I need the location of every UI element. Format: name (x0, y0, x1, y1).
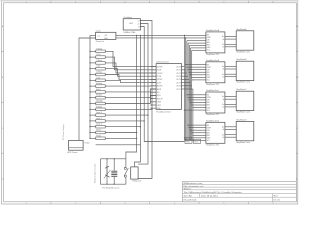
stepper driver U4 (206, 59, 225, 86)
resistor R2 X-Dir (89, 53, 156, 70)
wires U5 to motor connector P6 (225, 97, 236, 107)
svg-text:StepMotor Conn: StepMotor Conn (236, 50, 250, 53)
svg-text:RHElectronics.com: RHElectronics.com (184, 182, 203, 185)
svg-text:OUT3: OUT3 (176, 76, 181, 78)
svg-text:StepDriver 12V: StepDriver 12V (206, 143, 220, 146)
svg-text:MS1: MS1 (207, 42, 210, 44)
svg-text:ATX Power: ATX Power (68, 151, 78, 154)
svg-text:Limit Z: Limit Z (96, 123, 103, 126)
svg-text:STEP: STEP (207, 97, 211, 99)
U2 right pin stubs (176, 66, 193, 90)
svg-text:X-Dir: X-Dir (96, 53, 101, 56)
svg-text:OSC: OSC (129, 23, 134, 25)
wire bundle center vertical 3 (144, 38, 184, 142)
svg-text:Z-Step: Z-Step (96, 71, 102, 74)
svg-text:P1: P1 (98, 36, 100, 38)
interface header U2 (156, 61, 181, 114)
U2 left pin stubs (150, 66, 163, 110)
frame reference letters and numbers (2, 2, 299, 205)
resistor R14 Limit Z (89, 123, 141, 128)
relay contact switch S1 (124, 159, 128, 184)
svg-text:16MHz XTAL: 16MHz XTAL (123, 31, 136, 34)
svg-text:Z-Dir: Z-Dir (96, 76, 101, 79)
motor connector P7 (236, 118, 254, 143)
svg-text:StepMotorB: StepMotorB (236, 58, 247, 61)
wires U4 to motor connector P5 (225, 66, 236, 76)
svg-text:StepDriver 12V: StepDriver 12V (206, 83, 220, 86)
input bus vertical (89, 51, 91, 138)
svg-text:YSTEP: YSTEP (157, 73, 163, 75)
net label GND flag (185, 139, 192, 143)
svg-text:Parallel port brd: Parallel port brd (156, 110, 170, 113)
wire U1 pin3 to bus (140, 27, 144, 38)
ATX power connector P2 (68, 140, 84, 154)
svg-text:MS1: MS1 (207, 132, 210, 134)
svg-text:OUT0: OUT0 (176, 66, 181, 68)
svg-text:XSTEP: XSTEP (157, 66, 163, 68)
svg-text:ZSTEP: ZSTEP (157, 79, 163, 81)
svg-text:StepMotorDrvC: StepMotorDrvC (206, 89, 220, 92)
svg-text:File: schematics.sch: File: schematics.sch (184, 185, 204, 188)
svg-text:B+: B+ (222, 44, 224, 46)
svg-text:STEP: STEP (207, 127, 211, 129)
relay coil box K1 (131, 167, 142, 183)
svg-text:Power In: Power In (96, 40, 105, 43)
svg-text:InterfaceConn: InterfaceConn (156, 61, 169, 64)
resistor R13 Limit Y (89, 117, 145, 122)
svg-text:OUT4: OUT4 (176, 79, 181, 81)
svg-text:MS2: MS2 (207, 135, 210, 137)
svg-text:GND: GND (186, 142, 191, 144)
svg-text:Date: 28 jul 2014: Date: 28 jul 2014 (201, 195, 218, 198)
wire P1 ground to ATX connector (79, 38, 96, 140)
resistor R4 Y-Dir (89, 65, 156, 77)
resistor R15 Home (89, 130, 137, 134)
svg-text:Oscillator: Oscillator (123, 16, 132, 19)
svg-text:Relay Output Contact: Relay Output Contact (94, 163, 97, 183)
svg-text:Limit Y: Limit Y (96, 117, 102, 120)
relay coil L1 (111, 159, 117, 184)
resistor R16 Probe (89, 134, 137, 139)
svg-text:Conn: Conn (96, 30, 102, 32)
wire U1 pin2 to bus (140, 24, 148, 36)
motor connector P6 (236, 88, 254, 114)
svg-text:OUT1: OUT1 (176, 70, 181, 72)
svg-text:OUT7: OUT7 (176, 89, 181, 91)
svg-text:OUT6: OUT6 (176, 86, 181, 88)
U4 left pin wires (185, 64, 206, 81)
resistor R1 X-Step (89, 47, 156, 66)
resistor R11 E-Stop (89, 105, 152, 110)
U6 left pin wires (184, 124, 206, 141)
svg-text:StepMotorDrvD: StepMotorDrvD (206, 119, 220, 122)
bus risers to driver 1 (185, 35, 203, 85)
net label VCC flag (194, 139, 201, 143)
oscillator U1 (123, 16, 140, 34)
svg-text:Probe: Probe (85, 142, 90, 145)
svg-text:o1: o1 (138, 20, 140, 22)
sheet inner border (4, 3, 297, 202)
relay circuit left wire (100, 159, 102, 184)
relay circuit bottom wire (101, 184, 126, 185)
svg-text:Enable: Enable (96, 95, 102, 97)
svg-text:StepMotor Conn: StepMotor Conn (236, 141, 250, 144)
svg-text:Probe: Probe (96, 134, 101, 137)
label probe (85, 142, 90, 145)
svg-text:STEP: STEP (207, 37, 211, 39)
svg-text:MS2: MS2 (207, 75, 210, 77)
svg-text:OUT2: OUT2 (176, 73, 181, 75)
svg-text:StepMotorA: StepMotorA (236, 28, 247, 31)
svg-text:ESTOP: ESTOP (157, 98, 164, 100)
svg-text:Y-Dir: Y-Dir (96, 65, 101, 68)
svg-text:Id: 1/1: Id: 1/1 (274, 200, 281, 202)
svg-text:StepMotor Conn: StepMotor Conn (236, 81, 250, 84)
stepper driver U6 (206, 119, 225, 146)
svg-text:Title: RHElectronics MultiMach: Title: RHElectronics MultiMachine(ECO)v.… (184, 191, 242, 194)
wire bundle center vertical 4 (138, 35, 148, 164)
resistor R9 Enable (89, 92, 156, 99)
svg-text:MS1: MS1 (207, 72, 210, 74)
svg-text:B+: B+ (222, 104, 224, 106)
svg-text:o2: o2 (138, 23, 140, 25)
svg-text:B+: B+ (222, 134, 224, 136)
svg-text:StepMotorDrvB: StepMotorDrvB (206, 59, 220, 62)
U5 left pin wires (184, 94, 206, 111)
svg-text:o3: o3 (138, 26, 140, 28)
svg-text:STEP: STEP (207, 67, 211, 69)
sheet outer border (0, 0, 298, 204)
resistor R3 Y-Step (89, 59, 156, 73)
svg-text:OUT5: OUT5 (176, 82, 181, 84)
svg-text:Sheet: /: Sheet: / (184, 188, 192, 191)
svg-text:KiCad E.D.A.: KiCad E.D.A. (184, 199, 197, 202)
resistor R7 A-Step (89, 82, 156, 87)
svg-text:Size: A4: Size: A4 (184, 195, 193, 198)
svg-text:PC Power Supply: PC Power Supply (63, 124, 65, 140)
svg-text:PC Enabled Circuit: PC Enabled Circuit (102, 187, 119, 190)
stepper driver U5 (206, 89, 225, 116)
resistor R8 A-Dir (89, 88, 156, 93)
relay circuit top wire (101, 158, 126, 159)
svg-text:E-Stop: E-Stop (96, 105, 102, 108)
svg-text:Y-Step: Y-Step (96, 59, 102, 62)
wire P1 GND rail to driver 1 (116, 37, 206, 39)
wires U6 to motor connector P7 (225, 127, 236, 137)
wire bundle center vertical 1 (126, 35, 137, 158)
stepper driver U3 (206, 29, 225, 56)
wire bundle center vertical 2 (96, 35, 141, 167)
resistor R10 Spindle (89, 95, 156, 104)
svg-text:Home: Home (96, 130, 101, 132)
svg-text:MS1: MS1 (207, 102, 210, 104)
svg-text:MS2: MS2 (207, 45, 210, 47)
U3 left pin wires (202, 41, 206, 51)
svg-text:ASTEP: ASTEP (157, 85, 163, 88)
svg-text:StepMotorDrvA: StepMotorDrvA (206, 29, 220, 32)
junction dots on power rails (136, 35, 186, 39)
resistor R6 Z-Dir (89, 76, 156, 82)
svg-text:A-Dir: A-Dir (96, 88, 101, 91)
wires U3 to motor connector P4 (225, 36, 236, 46)
label PC power supply (63, 124, 65, 140)
motor connector P5 (236, 58, 254, 83)
svg-text:StepDriver 12V: StepDriver 12V (206, 113, 220, 116)
svg-text:StepMotor Conn: StepMotor Conn (236, 111, 250, 114)
svg-text:Spindle: Spindle (96, 101, 102, 103)
svg-text:A-Step: A-Step (96, 82, 102, 85)
resistor R5 Z-Step (89, 71, 156, 80)
svg-text:B+: B+ (222, 74, 224, 76)
svg-text:StepMotorC: StepMotorC (236, 88, 247, 91)
svg-text:StepMotorD: StepMotorD (236, 118, 247, 121)
svg-text:MS2: MS2 (207, 105, 210, 107)
label relay circuit (102, 187, 119, 190)
title block (182, 182, 296, 202)
label relay output contact (94, 163, 97, 183)
svg-text:Limit X: Limit X (96, 111, 103, 114)
wire U1 pin1 to bus (140, 21, 152, 36)
frame division ticks (2, 1, 298, 204)
svg-text:Rev:: Rev: (274, 196, 279, 198)
motor connector P4 (236, 28, 254, 54)
transistor Q1 (104, 159, 111, 184)
svg-text:Relay Coil: Relay Coil (133, 181, 142, 183)
control bus verticals (185, 67, 193, 141)
wires bundle U2 lower pins (150, 98, 152, 109)
power connector P1 (96, 30, 116, 43)
svg-text:StepDriver 12V: StepDriver 12V (206, 53, 220, 56)
wire bundle center vertical 5 (138, 35, 152, 178)
resistor R12 Limit X (89, 111, 148, 116)
wire P1 to input bus (90, 35, 96, 51)
svg-text:X-Step: X-Step (96, 47, 102, 50)
wire P1 +5V rail to driver 1 (116, 34, 206, 36)
